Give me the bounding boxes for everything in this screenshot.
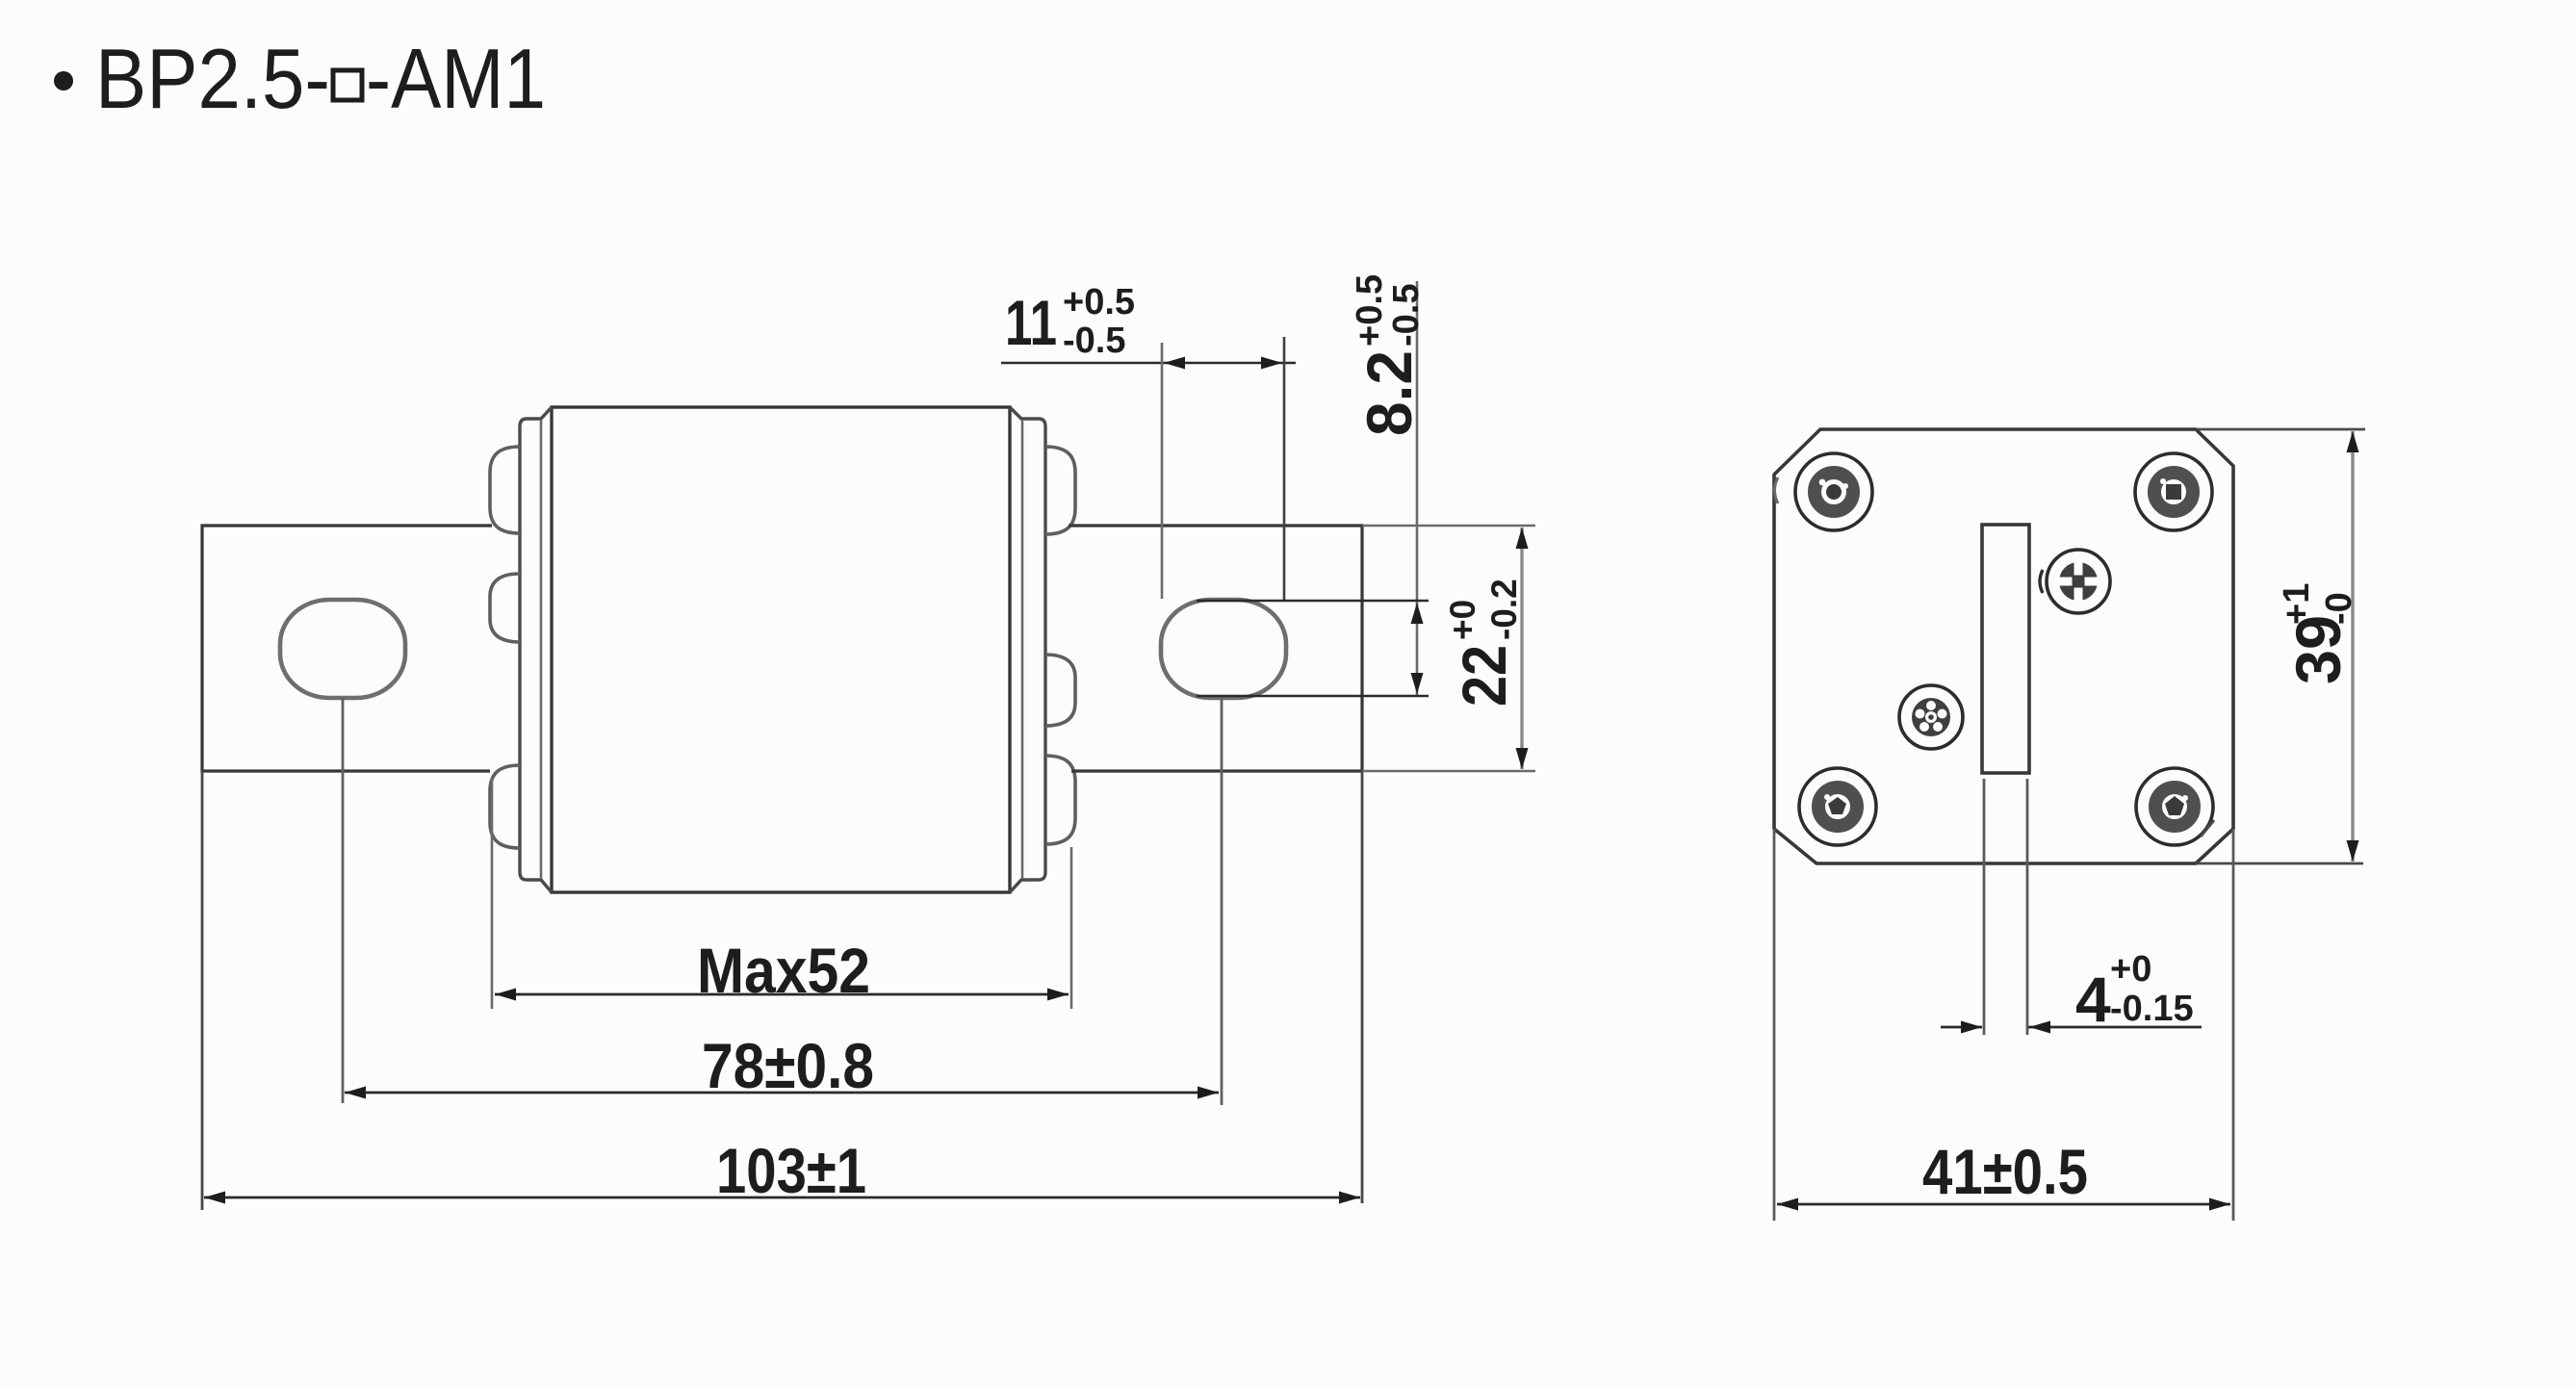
svg-text:-AM1: -AM1: [366, 31, 546, 126]
plate top edge extension (39 dim): [2196, 428, 2365, 431]
dimension 22 +0/-0.2 (tab width): [1362, 526, 1535, 771]
svg-text:103±1: 103±1: [716, 1135, 866, 1206]
title text BP2.5-square-AM1: [95, 31, 546, 126]
plate bottom edge extension (39 dim): [2196, 862, 2363, 865]
dimension 8.2 +0.5/-0.5 (slot height): [1197, 281, 1429, 696]
svg-text:78±0.8: 78±0.8: [702, 1030, 874, 1101]
svg-text:-0.5: -0.5: [1063, 321, 1125, 361]
right end cap: [1010, 407, 1045, 892]
left tab centre line (78 dim extension): [342, 698, 345, 1103]
right tab edge extension (103 dim): [1361, 771, 1364, 1203]
svg-text:+1: +1: [2277, 583, 2317, 625]
plate left edge extension (41 dim): [1773, 829, 1776, 1221]
dimension 4 +0/-0.15 (slot width): [1941, 1021, 2202, 1034]
right tab slot hole: [1161, 600, 1286, 698]
small screw near slot top (phillips): [2047, 550, 2110, 613]
svg-text:41±0.5: 41±0.5: [1922, 1136, 2088, 1207]
centre slot: [1982, 525, 2029, 773]
title bullet: [54, 71, 73, 90]
right ribs (3 bumps): [1045, 447, 1075, 844]
right mounting tab: [1069, 526, 1362, 771]
svg-text:-0: -0: [2319, 592, 2359, 625]
svg-text:-0.15: -0.15: [2110, 989, 2194, 1029]
dimension 103±1 (overall length): [204, 1192, 1360, 1204]
fuse body: [552, 407, 1010, 892]
corner screw bottom-right: [2136, 768, 2213, 845]
tick beside phillips screw: [2040, 570, 2043, 593]
dimension 78±0.8 (slot centres): [345, 1087, 1219, 1099]
left ribs (3 bumps): [490, 447, 520, 848]
left end cap: [520, 407, 552, 892]
tick inside bottom-right chamfer: [2201, 820, 2214, 837]
svg-text:BP2.5-: BP2.5-: [95, 31, 330, 126]
corner screw top-right: [2135, 453, 2212, 530]
svg-text:8.2: 8.2: [1353, 350, 1425, 436]
right tab centre line (78 dim extension): [1221, 698, 1224, 1105]
dimension 41±0.5 (plate width): [1777, 1198, 2230, 1211]
svg-text:11: 11: [1005, 287, 1057, 358]
svg-text:Max52: Max52: [697, 935, 870, 1006]
svg-text:+0.5: +0.5: [1063, 282, 1135, 322]
small screw left of slot (5-lobe): [1899, 685, 1963, 749]
svg-text:-0.5: -0.5: [1386, 284, 1427, 347]
svg-text:+0.5: +0.5: [1350, 274, 1390, 347]
dimension Max52 (body width incl. ribs): [492, 778, 1071, 1009]
left tab slot hole: [280, 600, 405, 698]
svg-text:+0: +0: [1443, 600, 1482, 640]
svg-text:22: 22: [1450, 645, 1519, 707]
corner screw top-left: [1795, 453, 1872, 530]
end plate outline: [1774, 429, 2233, 863]
svg-text:-0.2: -0.2: [1484, 579, 1524, 640]
plate right edge extension (41 dim): [2232, 829, 2235, 1221]
svg-text:4: 4: [2075, 964, 2111, 1035]
corner screw bottom-left: [1799, 768, 1876, 845]
left mounting tab: [202, 526, 492, 771]
weld tick beside top-left screw: [1775, 477, 1779, 503]
slot edge extensions (4 dim): [1983, 779, 1986, 1035]
dimension 11 +0.5/-0.5: [1001, 337, 1296, 601]
svg-text:+0: +0: [2110, 949, 2151, 990]
dimension 39 +1/-0 (plate height): [2347, 431, 2359, 862]
left tab edge extension (103 dim): [201, 771, 204, 1210]
